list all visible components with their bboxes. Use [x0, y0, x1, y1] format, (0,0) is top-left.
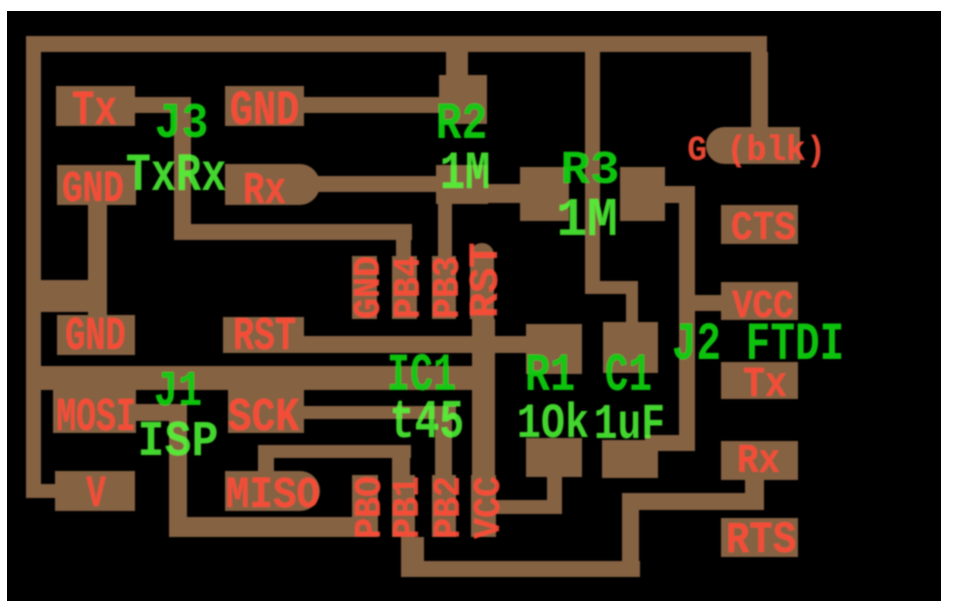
svg-text:VCC: VCC [468, 476, 511, 539]
svg-text:MOSI: MOSI [56, 392, 136, 445]
svg-text:TxRx: TxRx [126, 147, 227, 207]
svg-text:1M: 1M [556, 190, 618, 252]
svg-text:PB1: PB1 [387, 476, 430, 539]
svg-text:J3: J3 [155, 96, 209, 153]
svg-text:RST: RST [233, 310, 296, 363]
svg-text:RST: RST [462, 242, 510, 318]
svg-text:PBO: PBO [349, 476, 392, 539]
svg-text:PB4: PB4 [388, 256, 431, 319]
svg-text:G (blk): G (blk) [687, 132, 826, 171]
svg-text:CTS: CTS [731, 205, 796, 252]
svg-text:1M: 1M [440, 145, 491, 205]
svg-text:Tx: Tx [72, 85, 117, 140]
svg-text:Rx: Rx [243, 166, 286, 217]
svg-text:SCK: SCK [228, 392, 300, 445]
svg-text:RTS: RTS [726, 515, 796, 566]
svg-text:ISP: ISP [138, 414, 219, 471]
svg-text:GND: GND [62, 164, 124, 214]
svg-text:MISO: MISO [226, 470, 320, 521]
svg-text:GND: GND [348, 256, 391, 319]
svg-text:1Ok: 1Ok [517, 398, 589, 453]
svg-text:Tx: Tx [743, 361, 787, 409]
svg-text:PB2: PB2 [428, 476, 471, 539]
svg-text:V: V [86, 470, 106, 520]
svg-text:GND: GND [65, 311, 126, 364]
svg-text:Rx: Rx [737, 438, 780, 485]
svg-text:J1: J1 [154, 363, 202, 420]
svg-text:VCC: VCC [732, 285, 794, 330]
svg-text:t45: t45 [390, 392, 465, 454]
svg-text:GND: GND [230, 84, 299, 140]
svg-text:1uF: 1uF [594, 396, 665, 454]
